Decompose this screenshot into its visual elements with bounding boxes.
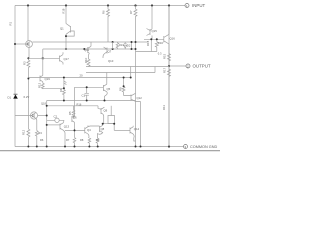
wire bus y=72.5 [86, 72, 155, 74]
node (135.5,42) [135, 41, 137, 43]
transistor Q1 [66, 24, 71, 35]
wire x=135.5 full down [135, 17, 137, 147]
node (112.6,42) [112, 41, 114, 43]
wire x=63.9 with transistor Q18 marks [64, 78, 67, 90]
wire bus y=77.5 [28, 77, 130, 79]
wire bus y=105.8 [47, 105, 98, 107]
wire branch x=28 from top rail [27, 6, 29, 41]
transistor Q5 at right of bus 87.3 [103, 73, 107, 101]
node (74.5,130.4) [74, 129, 76, 131]
node top rail dots [27, 4, 153, 6]
resistor R3 [27, 60, 30, 68]
svg-text:R11: R11 [162, 105, 166, 110]
svg-text:R7: R7 [129, 10, 133, 14]
transistor Q19 on bus [40, 75, 43, 81]
svg-text:R13: R13 [38, 82, 42, 88]
svg-text:Q13: Q13 [64, 125, 70, 129]
node (66,36.1) [65, 35, 67, 37]
svg-text:INPUT: INPUT [192, 3, 205, 8]
svg-text:R7: R7 [66, 138, 70, 142]
wire base Q20 from left rail [15, 43, 28, 45]
wire bus y=58.3 [28, 57, 59, 59]
node output junction [168, 65, 170, 67]
wire x=151.3 drop [150, 39, 152, 51]
wire bus y=100.5 [47, 100, 136, 102]
wire left rail [14, 6, 16, 147]
wire Q2 right [38, 115, 47, 117]
node (28.4,58.3) [27, 57, 29, 59]
transistor Q15 [147, 29, 153, 40]
wire x=112.6 [112, 42, 114, 49]
svg-text:R13: R13 [119, 44, 124, 47]
svg-text:20: 20 [80, 74, 84, 78]
svg-text:R3: R3 [23, 61, 27, 65]
svg-text:Q4: Q4 [87, 128, 91, 132]
svg-text:Q11: Q11 [84, 48, 90, 52]
node (131.5,42) [131, 41, 133, 43]
terminal INPUT circle [185, 4, 189, 8]
node (114.2,123.7) [113, 123, 115, 125]
svg-text:Q2: Q2 [32, 114, 36, 118]
resistor R2 (Q2 emitter) [35, 131, 38, 147]
node (63.9,77.5) [63, 77, 65, 79]
node bottom rail dots [36, 146, 142, 148]
svg-text:D2: D2 [127, 44, 131, 48]
wire bottom rail [15, 146, 169, 148]
wire bus y=42 [32, 41, 148, 43]
node (104.5,100.5) [104, 100, 106, 102]
svg-text:R16: R16 [158, 41, 164, 45]
svg-text:Q1: Q1 [60, 27, 64, 31]
svg-text:R6: R6 [102, 10, 106, 14]
svg-text:R8: R8 [80, 138, 84, 142]
svg-text:R15: R15 [163, 53, 167, 59]
wire x=46.7 [46, 101, 48, 147]
wire y=120.3 through C2 [47, 119, 64, 121]
svg-text:Q17: Q17 [64, 57, 70, 61]
svg-text:20: 20 [27, 42, 31, 46]
svg-text:Q15: Q15 [152, 29, 158, 33]
resistor R13a x=117.5 [116, 42, 119, 49]
svg-text:C2: C2 [54, 115, 58, 119]
wire r13 to x=63.9 [43, 87, 64, 89]
node (86.7,100.5) [86, 100, 88, 102]
transistor Q17 [60, 52, 64, 64]
svg-text:Q7: Q7 [108, 49, 112, 53]
svg-text:Q18: Q18 [41, 102, 46, 106]
svg-text:Q16: Q16 [170, 37, 176, 41]
transistor Q9 [98, 106, 104, 124]
wire q16 collector [168, 6, 170, 35]
node (102.7,123.7) [102, 123, 104, 125]
wire x=131.5 [131, 42, 133, 49]
transistor Q4 [85, 125, 91, 146]
svg-text:R6: R6 [40, 138, 44, 142]
svg-text:R14: R14 [146, 40, 150, 46]
box component left mid [108, 116, 115, 124]
branch x=152: wire [151, 6, 153, 30]
node (42.8,58.3) [42, 57, 44, 59]
node (15,44) [14, 43, 16, 45]
branch x=108 resistor R6 [107, 6, 110, 18]
svg-text:Q5: Q5 [107, 87, 111, 91]
node (112.6,49) [112, 48, 114, 50]
wire hook [66, 31, 74, 49]
resistor R10 x=90 [87, 55, 90, 67]
svg-text:R18: R18 [62, 8, 66, 13]
resistor R12 [27, 129, 30, 138]
wire corner x=74.5 [75, 87, 104, 116]
resistor R5 x=73.5 [72, 106, 75, 119]
node input junction [168, 4, 170, 6]
transistor Q14 [130, 126, 136, 141]
svg-text:Q10: Q10 [108, 59, 114, 63]
wire Q4 collector to Q8 base [88, 125, 100, 128]
branch x=156.8 resistor R16 [155, 39, 158, 51]
node (46.7,115.5) [46, 115, 48, 117]
node common junction [168, 145, 170, 147]
svg-text:Q8: Q8 [101, 127, 105, 131]
terminal COMMON circle [184, 145, 188, 149]
wire Q20 down [27, 47, 30, 60]
wire input lead [169, 5, 185, 7]
svg-text:Q12: Q12 [137, 96, 143, 100]
node (151.3,39.3) [150, 38, 152, 40]
svg-text:COMMON GND: COMMON GND [190, 145, 217, 149]
node (123.6,86.2) [123, 85, 125, 87]
svg-text:R12: R12 [22, 129, 26, 135]
resistor R15 on right rail [168, 44, 171, 66]
wire Q11 collector up [90, 42, 92, 46]
wire Q8 collector [102, 124, 104, 126]
wire common lead [169, 146, 184, 148]
resistor R13 x=42.8 [41, 82, 44, 89]
branch x=66: wire from top [65, 6, 67, 24]
wire y=123.7 box link [103, 124, 115, 131]
transistor Q20 circle [26, 41, 33, 48]
wire top rail [15, 5, 169, 7]
node (63.9,100.5) [63, 100, 65, 102]
svg-text:R9: R9 [119, 87, 123, 91]
svg-text:0.3: 0.3 [158, 52, 162, 56]
wire output lead [169, 65, 186, 67]
wire x=28 down to bottom resistor [27, 79, 29, 130]
svg-text:R3: R3 [38, 131, 42, 135]
wire bus y=130.4 Q14 base [114, 129, 130, 131]
node (46.7,105.8) [46, 105, 48, 107]
node (123.6,77.5) [123, 77, 125, 79]
wire output bus y=66.5 [86, 66, 169, 68]
svg-text:R9: R9 [96, 138, 100, 142]
transistor Q16 pass [164, 34, 169, 44]
wire right rail [168, 6, 170, 147]
svg-text:R1: R1 [9, 21, 13, 25]
wire to bus42 [107, 17, 109, 42]
transistor Q7 [103, 47, 107, 58]
wire bus y=49 [43, 48, 136, 50]
node (63.9,88.3) [63, 87, 65, 89]
svg-text:R5: R5 [68, 111, 72, 115]
diode Z1 on left rail [14, 93, 18, 95]
wire box top [110, 106, 112, 116]
svg-text:R4: R4 [59, 88, 63, 92]
transistor Q8 [96, 125, 103, 146]
wire riser x=155 [154, 67, 156, 73]
node (131.5,49) [131, 48, 133, 50]
wire bus y=39.3 [144, 38, 164, 40]
svg-text:Q14: Q14 [134, 127, 140, 131]
wire base Q2 from left rail [15, 115, 33, 117]
terminal OUTPUT circle [186, 64, 190, 68]
node (84.3,49) [83, 48, 85, 50]
wire Q2 emitter x=36.8 [35, 118, 38, 130]
transistor Q2 circle bottom left [30, 112, 37, 119]
node (66,49) [65, 48, 67, 50]
transistor Q13 [60, 121, 65, 146]
svg-text:R16: R16 [77, 102, 82, 106]
wire bus y=124.9 [47, 124, 60, 126]
transistor Q6 [72, 116, 75, 131]
wire page bottom border [0, 150, 220, 152]
node (130.7,77.5) [130, 77, 132, 79]
svg-text:Q6: Q6 [73, 116, 77, 120]
svg-text:OUTPUT: OUTPUT [193, 64, 211, 69]
svg-text:R17: R17 [163, 67, 167, 73]
node (86.7,87.3) [86, 86, 88, 88]
node (28.4,78.5) [27, 78, 29, 80]
svg-text:Q19: Q19 [45, 77, 51, 81]
node (135.5,49) [135, 48, 137, 50]
small circle C2 [55, 118, 59, 122]
svg-text:C1: C1 [82, 94, 86, 98]
wire to bottom rail [27, 138, 29, 147]
svg-text:D1: D1 [8, 96, 12, 100]
capacitor C1 [85, 87, 89, 100]
node (28.4,146.5) [27, 146, 29, 148]
wire bus y=51.5 [136, 51, 157, 53]
svg-text:R10: R10 [84, 57, 88, 63]
branch x=135.5 resistor R7 [134, 6, 137, 18]
wire x=63.9 lower stub [63, 120, 65, 121]
svg-text:Q9: Q9 [104, 109, 108, 113]
wire to node y78 [27, 68, 29, 79]
wire y=130.4 with resistor R7 drop [65, 130, 85, 146]
wire Q12 emitter down x=140.5 [136, 102, 141, 147]
resistor R9 chain x=123.6 from bus y=77.5 [122, 78, 131, 96]
small diode D2 x=125.2 [124, 42, 127, 49]
resistor R17 below output [168, 66, 171, 147]
transistor Q12 [131, 93, 136, 101]
node (156.8,39.3) [156, 38, 158, 40]
node (46.7,124.9) [46, 124, 48, 126]
wire riser x=130.7 [130, 67, 132, 78]
transistor Q11 [84, 46, 91, 54]
wire corner x=42.8 [42, 49, 44, 75]
svg-text:6.2V: 6.2V [24, 95, 30, 99]
resistor R4 x=63.9 [63, 90, 66, 101]
